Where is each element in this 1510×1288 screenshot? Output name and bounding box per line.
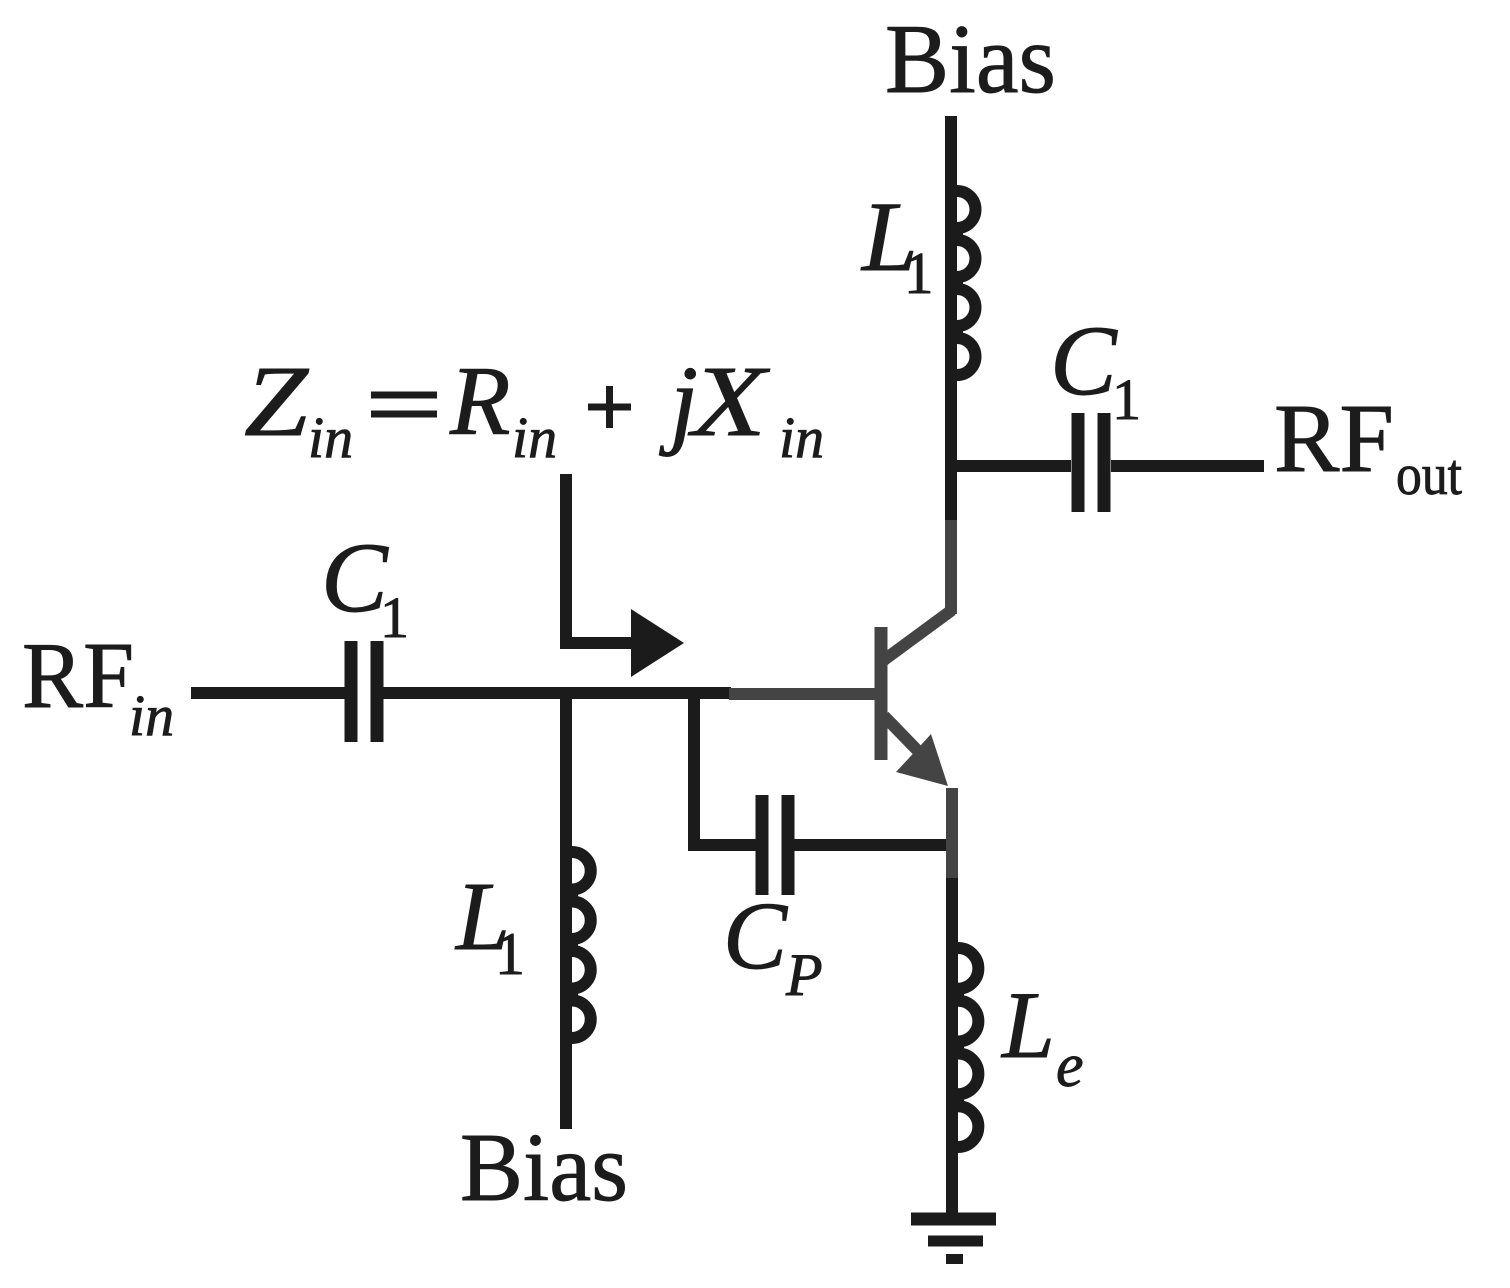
svg-text:1: 1 <box>904 240 934 306</box>
svg-text:C: C <box>723 882 788 989</box>
svg-text:L: L <box>1000 972 1055 1078</box>
svg-text:Bias: Bias <box>885 5 1056 114</box>
svg-text:C: C <box>321 522 389 633</box>
svg-text:1: 1 <box>1112 367 1141 432</box>
svg-text:RF: RF <box>1274 385 1394 492</box>
svg-text:out: out <box>1396 442 1462 507</box>
svg-text:R: R <box>449 347 510 456</box>
svg-text:P: P <box>785 942 823 1008</box>
svg-text:in: in <box>779 405 824 470</box>
svg-text:in: in <box>512 405 557 470</box>
svg-text:Bias: Bias <box>460 1114 628 1221</box>
svg-text:1: 1 <box>380 585 409 650</box>
svg-text:1: 1 <box>495 921 525 987</box>
svg-text:C: C <box>1050 305 1118 416</box>
svg-text:in: in <box>308 405 353 470</box>
svg-text:e: e <box>1056 1032 1084 1100</box>
svg-text:RF: RF <box>22 624 134 728</box>
svg-text:Z: Z <box>244 345 310 457</box>
svg-text:X: X <box>688 346 771 457</box>
svg-text:in: in <box>129 683 174 748</box>
